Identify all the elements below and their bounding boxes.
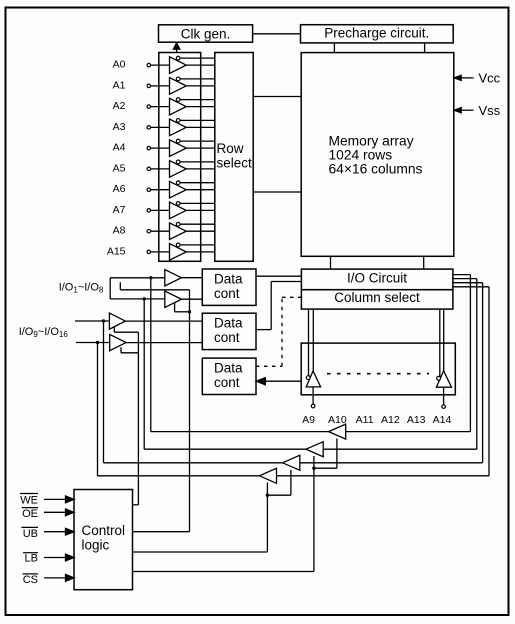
svg-text:A5: A5 — [113, 162, 126, 174]
svg-text:A12: A12 — [381, 414, 400, 426]
svg-text:A10: A10 — [328, 414, 347, 426]
svg-text:UB: UB — [23, 528, 38, 540]
svg-text:Vss: Vss — [479, 103, 501, 118]
svg-text:cont: cont — [214, 330, 240, 345]
svg-text:Data: Data — [214, 361, 243, 376]
svg-text:Data: Data — [214, 316, 243, 331]
svg-text:I/O Circuit: I/O Circuit — [347, 271, 407, 286]
svg-text:A7: A7 — [113, 204, 126, 216]
svg-text:A9: A9 — [302, 414, 315, 426]
svg-text:A11: A11 — [356, 414, 374, 426]
svg-text:A13: A13 — [407, 414, 426, 426]
svg-text:logic: logic — [82, 538, 110, 553]
svg-text:A15: A15 — [107, 245, 126, 257]
svg-text:select: select — [217, 156, 253, 171]
svg-text:A3: A3 — [113, 121, 126, 133]
svg-text:Memory array: Memory array — [329, 134, 414, 149]
svg-text:A0: A0 — [113, 59, 126, 71]
svg-text:A6: A6 — [113, 183, 126, 195]
svg-text:WE: WE — [20, 494, 38, 506]
svg-text:Column select: Column select — [334, 290, 420, 305]
svg-text:CS: CS — [23, 574, 38, 586]
svg-text:I/O1~I/O8: I/O1~I/O8 — [59, 282, 104, 295]
svg-text:A14: A14 — [433, 414, 452, 426]
svg-text:A1: A1 — [113, 79, 126, 91]
svg-text:Control: Control — [82, 523, 126, 538]
svg-text:Row: Row — [217, 141, 244, 156]
svg-text:Data: Data — [214, 271, 243, 286]
svg-text:LB: LB — [25, 553, 38, 565]
svg-text:64×16 columns: 64×16 columns — [329, 162, 423, 177]
svg-text:cont: cont — [214, 286, 240, 301]
svg-text:A8: A8 — [113, 225, 126, 237]
svg-text:Clk gen.: Clk gen. — [181, 26, 231, 41]
svg-text:A4: A4 — [113, 142, 126, 154]
svg-text:Precharge circuit.: Precharge circuit. — [324, 26, 429, 41]
svg-text:A2: A2 — [113, 100, 126, 112]
svg-text:Vcc: Vcc — [479, 71, 501, 86]
svg-text:OE: OE — [22, 508, 38, 520]
svg-text:1024 rows: 1024 rows — [329, 148, 393, 163]
svg-text:cont: cont — [214, 375, 240, 390]
